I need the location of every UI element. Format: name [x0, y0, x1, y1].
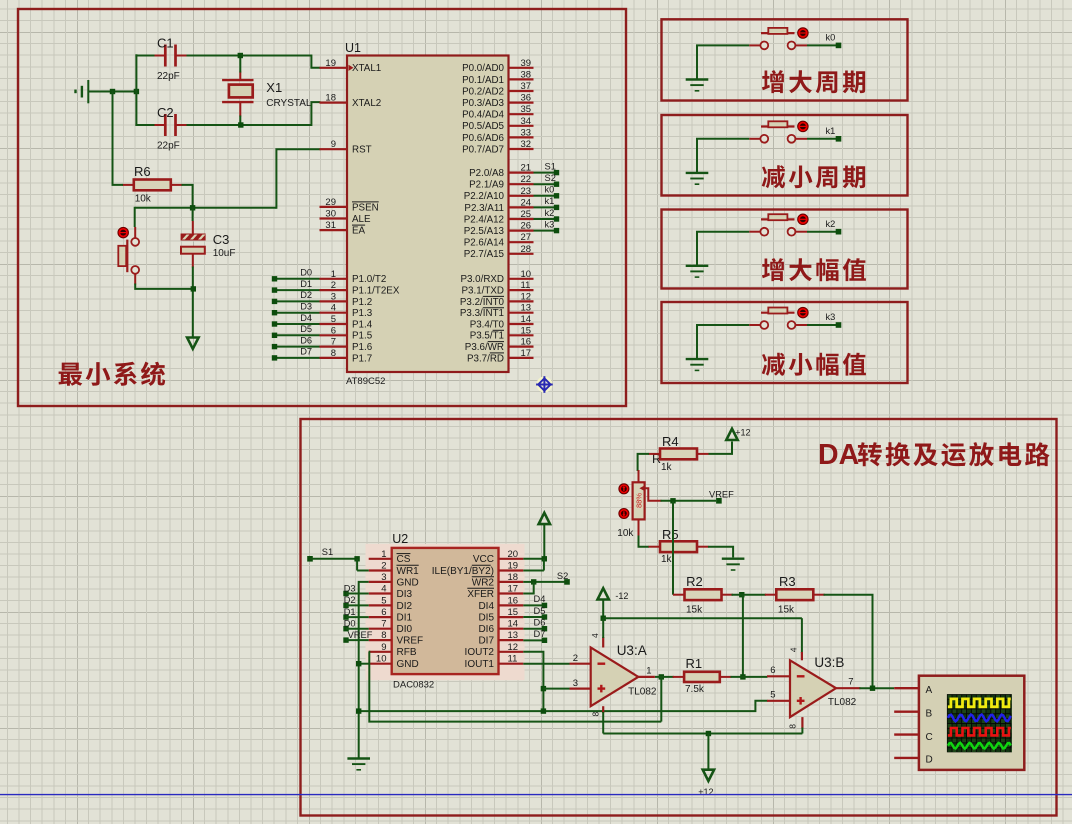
svg-text:U1: U1	[345, 41, 361, 55]
net label D0 (P1.0)	[272, 268, 320, 282]
svg-text:P0.4/AD4: P0.4/AD4	[462, 110, 504, 121]
svg-text:B: B	[926, 708, 933, 719]
net VREF	[661, 490, 735, 504]
svg-text:24: 24	[521, 197, 532, 208]
svg-text:R6: R6	[134, 164, 151, 179]
svg-text:R1: R1	[686, 656, 703, 671]
junction (+12 rail)	[706, 731, 711, 770]
svg-text:6: 6	[381, 607, 386, 618]
svg-text:19: 19	[508, 561, 519, 572]
svg-text:DI0: DI0	[397, 624, 413, 635]
svg-text:P2.0/A8: P2.0/A8	[469, 168, 504, 179]
svg-text:k3: k3	[826, 312, 836, 322]
net label D2 (P1.2)	[272, 290, 320, 304]
svg-text:21: 21	[521, 163, 532, 174]
net terminal k2	[807, 219, 841, 235]
resistor R3 15k	[765, 574, 825, 616]
svg-text:10k: 10k	[135, 194, 152, 205]
op-amp U3:B	[767, 647, 860, 729]
svg-text:17: 17	[508, 584, 519, 595]
wire gnd-R6 (left leg)	[113, 91, 124, 185]
svg-text:29: 29	[325, 197, 336, 208]
svg-text:D0: D0	[300, 268, 312, 278]
net label D0 (DI0)	[343, 619, 368, 632]
svg-text:6: 6	[770, 665, 775, 676]
svg-text:10: 10	[521, 269, 532, 280]
svg-text:D1: D1	[300, 279, 312, 289]
svg-text:R5: R5	[662, 527, 679, 542]
origin marker	[536, 376, 553, 393]
svg-text:P3.3/INT1: P3.3/INT1	[460, 308, 504, 319]
svg-text:10: 10	[376, 654, 387, 665]
net label S2 (P2.1)	[534, 173, 560, 187]
svg-text:DI7: DI7	[478, 636, 494, 647]
svg-text:26: 26	[521, 221, 532, 232]
junction (R2/R3)	[739, 592, 744, 597]
svg-text:11: 11	[521, 280, 531, 291]
svg-text:TL082: TL082	[828, 697, 857, 708]
svg-text:7: 7	[848, 677, 853, 688]
resistor R4 1k	[649, 434, 709, 473]
power +12 (rail)	[698, 770, 714, 797]
svg-text:X1: X1	[266, 80, 282, 95]
net label k0 (P2.2)	[534, 185, 560, 199]
potentiometer RV1 10k	[617, 470, 661, 539]
resistor R5 1k	[649, 527, 709, 565]
svg-text:8: 8	[331, 348, 336, 359]
junction (GND line mid)	[541, 708, 546, 713]
net label D1 (P1.1)	[272, 279, 320, 293]
svg-text:6: 6	[331, 325, 336, 336]
svg-text:P0.1/AD1: P0.1/AD1	[462, 75, 504, 86]
svg-text:S1: S1	[322, 547, 333, 557]
wire C1-crystal-XTAL1	[135, 54, 320, 126]
box frame: k2 button	[662, 210, 908, 289]
svg-text:RST: RST	[352, 145, 372, 156]
svg-text:4: 4	[381, 584, 386, 595]
junction (gnd/C1C2 rail)	[134, 89, 139, 94]
wire +12 rail	[603, 733, 802, 735]
svg-text:2: 2	[331, 280, 336, 291]
svg-text:2: 2	[381, 561, 386, 572]
net label k3 (P2.5)	[534, 219, 560, 233]
svg-text:14: 14	[508, 619, 519, 630]
capacitor C1 22pF	[154, 36, 187, 83]
wire R3-U3B out	[824, 595, 873, 689]
svg-text:C1: C1	[157, 36, 174, 51]
wire R2-R3	[732, 594, 767, 596]
svg-text:3: 3	[331, 291, 336, 302]
svg-text:+12: +12	[698, 787, 713, 797]
wire IOUT1-pin2	[523, 663, 569, 665]
junction (GND pin10)	[356, 661, 361, 666]
net label D7 (P1.7)	[272, 347, 320, 361]
svg-text:D6: D6	[300, 335, 312, 345]
svg-text:CRYSTAL: CRYSTAL	[266, 98, 312, 109]
wire R5-gnd	[708, 547, 733, 558]
svg-text:P3.5/T1: P3.5/T1	[470, 331, 504, 342]
svg-text:11: 11	[508, 654, 518, 665]
svg-text:P1.0/T2: P1.0/T2	[352, 274, 386, 285]
svg-text:C2: C2	[157, 105, 174, 120]
net label k1 (P2.3)	[534, 196, 560, 210]
svg-text:k0: k0	[826, 33, 836, 43]
svg-text:22: 22	[521, 174, 532, 185]
junction (VCC/ILE)	[523, 556, 547, 570]
svg-text:GND: GND	[397, 659, 419, 670]
svg-text:k1: k1	[826, 126, 836, 136]
net terminal S1	[307, 547, 357, 561]
svg-text:DA: DA	[818, 439, 859, 471]
svg-text:12: 12	[521, 291, 532, 302]
crystal X1	[222, 72, 312, 117]
svg-text:D0: D0	[344, 619, 356, 629]
svg-text:k1: k1	[545, 196, 555, 206]
svg-text:P1.7: P1.7	[352, 353, 372, 364]
svg-text:XTAL1: XTAL1	[352, 63, 381, 74]
junction (U3A out)	[655, 674, 674, 721]
svg-text:10k: 10k	[617, 528, 634, 539]
svg-text:DI4: DI4	[478, 601, 494, 612]
svg-text:U3:A: U3:A	[617, 643, 647, 658]
wire button/C3 bottom	[135, 267, 193, 338]
junction (R1/R2R3/pin6)	[731, 674, 768, 679]
svg-text:k0: k0	[545, 185, 555, 195]
net label D3 (DI3)	[343, 583, 368, 596]
svg-text:P1.1/T2EX: P1.1/T2EX	[352, 286, 400, 297]
net label D6 (P1.6)	[272, 335, 320, 349]
svg-text:VREF: VREF	[397, 636, 424, 647]
svg-text:2: 2	[573, 653, 578, 664]
svg-text:P2.3/A11: P2.3/A11	[464, 203, 504, 214]
title: 减小周期	[762, 165, 865, 188]
wire U3B out	[859, 687, 894, 689]
svg-text:39: 39	[521, 58, 532, 69]
net label VREF (U2)	[343, 630, 372, 643]
svg-text:C3: C3	[213, 232, 230, 247]
svg-text:23: 23	[521, 186, 532, 197]
svg-text:D3: D3	[344, 583, 356, 593]
svg-text:13: 13	[521, 303, 532, 314]
resistor R1 7.5k	[673, 656, 732, 695]
svg-text:VREF: VREF	[709, 490, 734, 500]
title: 增大周期	[762, 70, 865, 93]
svg-text:1: 1	[646, 666, 651, 677]
svg-text:P2.7/A15: P2.7/A15	[464, 249, 505, 260]
ground (U2)	[347, 759, 370, 770]
svg-text:1k: 1k	[661, 554, 673, 565]
net label D1 (DI1)	[343, 607, 368, 620]
net terminal S2	[523, 571, 570, 585]
svg-text:VREF: VREF	[348, 630, 373, 640]
svg-text:ILE(BY1/BY2): ILE(BY1/BY2)	[432, 566, 494, 577]
svg-text:P1.5: P1.5	[352, 331, 373, 342]
junction (button/C3 gnd)	[191, 286, 196, 291]
svg-text:D7: D7	[534, 629, 546, 639]
svg-text:TL082: TL082	[628, 687, 657, 698]
net label S1 (P2.0)	[534, 161, 560, 175]
svg-text:P2.1/A9: P2.1/A9	[469, 180, 504, 191]
svg-text:D1: D1	[344, 607, 356, 617]
svg-text:DAC0832: DAC0832	[393, 680, 434, 691]
junction (C1/X1 top)	[238, 53, 243, 58]
svg-text:18: 18	[325, 93, 336, 104]
title: 增大幅值	[762, 258, 866, 281]
wire R4-pot	[638, 454, 649, 471]
net terminal k0	[807, 33, 841, 49]
svg-text:k2: k2	[826, 219, 836, 229]
svg-text:9: 9	[331, 139, 336, 150]
junction (R6/C3/RST)	[190, 205, 195, 210]
svg-text:15k: 15k	[686, 605, 703, 616]
svg-text:C: C	[926, 732, 933, 743]
svg-text:S2: S2	[557, 571, 568, 581]
wire to C3 top	[192, 207, 194, 221]
svg-text:20: 20	[508, 549, 519, 560]
svg-text:16: 16	[521, 337, 532, 348]
wire C2-crystal-XTAL2	[135, 102, 320, 126]
wire U3A pin8 +12	[602, 712, 604, 734]
oscilloscope	[894, 676, 1024, 770]
svg-text:1: 1	[331, 269, 336, 280]
svg-text:P0.6/AD6: P0.6/AD6	[462, 133, 504, 144]
svg-text:DI1: DI1	[397, 613, 413, 624]
wire R6-RST net	[135, 149, 321, 227]
svg-text:17: 17	[521, 348, 532, 359]
svg-text:34: 34	[521, 116, 532, 127]
svg-text:10uF: 10uF	[213, 248, 236, 259]
svg-text:D: D	[926, 754, 933, 765]
junction (IOUT2/pin3)	[541, 686, 570, 691]
IC U1 AT89C52	[320, 41, 534, 387]
capacitor C3 10uF	[181, 221, 236, 268]
svg-text:36: 36	[521, 93, 532, 104]
svg-text:31: 31	[325, 220, 336, 231]
push-button k2	[749, 214, 808, 236]
svg-text:R4: R4	[662, 434, 679, 449]
net label D5 (DI5)	[523, 606, 547, 620]
svg-text:22pF: 22pF	[157, 71, 180, 82]
ground (box k2)	[686, 232, 750, 277]
wire GND line (to pin5)	[359, 701, 768, 711]
wire VREF-R2	[672, 501, 674, 595]
svg-text:P2.4/A12: P2.4/A12	[464, 214, 504, 225]
title: 减小幅值	[762, 353, 866, 376]
svg-text:4: 4	[590, 633, 600, 638]
net label D2 (DI2)	[343, 595, 368, 608]
svg-text:CS: CS	[397, 554, 411, 565]
svg-text:k3: k3	[545, 219, 555, 229]
svg-text:38: 38	[521, 69, 532, 80]
svg-text:D3: D3	[300, 302, 312, 312]
junction (out/R3/scope)	[870, 686, 875, 691]
svg-text:+12: +12	[735, 428, 750, 438]
svg-text:P3.2/INT0: P3.2/INT0	[460, 297, 505, 308]
svg-text:P3.1/TXD: P3.1/TXD	[462, 286, 504, 297]
svg-text:D4: D4	[534, 594, 546, 604]
svg-text:EA: EA	[352, 226, 366, 237]
svg-text:22pF: 22pF	[157, 141, 180, 152]
svg-text:P0.7/AD7: P0.7/AD7	[462, 144, 504, 155]
svg-text:P2.6/A14: P2.6/A14	[464, 238, 505, 249]
svg-text:P2.5/A13: P2.5/A13	[464, 226, 505, 237]
svg-text:5: 5	[770, 689, 775, 700]
svg-text:D6: D6	[534, 617, 546, 627]
svg-text:DI6: DI6	[478, 624, 494, 635]
svg-text:P3.0/RXD: P3.0/RXD	[460, 274, 504, 285]
wire pot-R5	[639, 536, 650, 547]
box frame: k0 button	[662, 19, 908, 100]
svg-text:P3.6/WR: P3.6/WR	[465, 342, 504, 353]
hidden label RV1	[652, 452, 661, 466]
svg-text:5: 5	[331, 314, 336, 325]
junction (gnd/R6 branch)	[110, 89, 115, 94]
svg-text:15: 15	[521, 325, 532, 336]
svg-text:1: 1	[381, 549, 386, 560]
wire U2 GND rail	[359, 582, 369, 758]
svg-text:DI2: DI2	[397, 601, 413, 612]
ground (left of C1/C2)	[76, 80, 137, 103]
svg-text:R3: R3	[779, 574, 796, 589]
junction (GND line left)	[356, 708, 361, 713]
box frame: k1 button	[662, 115, 908, 196]
svg-text:37: 37	[521, 81, 532, 92]
svg-text:RFB: RFB	[397, 647, 417, 658]
op-amp U3:A	[570, 633, 657, 717]
svg-text:P1.6: P1.6	[352, 342, 373, 353]
net label D5 (P1.5)	[272, 324, 320, 338]
svg-text:GND: GND	[397, 577, 419, 588]
ground (box k0)	[686, 45, 750, 90]
svg-text:30: 30	[325, 209, 336, 220]
title: 最小系统	[59, 362, 166, 386]
svg-text:P0.0/AD0: P0.0/AD0	[462, 63, 504, 74]
power +12 (R4)	[708, 428, 750, 454]
ground arrow (down)	[187, 338, 199, 349]
svg-text:U2: U2	[392, 532, 408, 546]
net terminal k3	[807, 312, 841, 328]
push-button k1	[749, 121, 808, 143]
svg-text:WR2: WR2	[472, 577, 495, 588]
svg-text:DI5: DI5	[478, 613, 494, 624]
junction (VREF/R2)	[670, 498, 675, 503]
svg-text:15: 15	[508, 607, 519, 618]
net label D7 (DI7)	[523, 629, 547, 643]
svg-text:25: 25	[521, 209, 532, 220]
svg-text:U3:B: U3:B	[814, 655, 844, 670]
title: DA转换及运放电路	[818, 439, 1050, 471]
box frame: k3 button	[662, 302, 908, 383]
svg-text:IOUT1: IOUT1	[465, 659, 495, 670]
svg-text:8: 8	[381, 630, 386, 641]
net label D6 (DI6)	[523, 617, 547, 631]
svg-text:32: 32	[521, 139, 532, 150]
junction (C2/X1 bottom)	[238, 122, 243, 127]
svg-text:35: 35	[521, 104, 532, 115]
svg-text:1k: 1k	[661, 462, 673, 473]
svg-text:P0.5/AD5: P0.5/AD5	[462, 121, 504, 132]
svg-text:8: 8	[788, 724, 798, 729]
svg-text:7: 7	[381, 619, 386, 630]
svg-text:-12: -12	[615, 591, 628, 601]
IC U2 DAC0832	[366, 532, 525, 690]
capacitor C2 22pF	[154, 105, 187, 152]
svg-text:AT89C52: AT89C52	[346, 376, 385, 387]
junction (WR2/XFER)	[523, 579, 536, 593]
svg-text:88%: 88%	[635, 493, 644, 508]
wire -12 rail	[603, 618, 802, 653]
svg-text:D5: D5	[534, 606, 546, 616]
svg-text:WR1: WR1	[397, 566, 420, 577]
ground (R5)	[722, 559, 745, 570]
svg-text:27: 27	[521, 232, 532, 243]
svg-text:P3.4/T0: P3.4/T0	[470, 319, 505, 330]
svg-text:S2: S2	[545, 173, 556, 183]
resistor R2 15k	[673, 574, 733, 616]
net terminal k1	[807, 126, 841, 142]
svg-text:XTAL2: XTAL2	[352, 98, 381, 109]
power +5 (U2 VCC)	[523, 513, 550, 559]
push-button k0	[749, 28, 808, 50]
svg-text:P0.2/AD2: P0.2/AD2	[462, 86, 504, 97]
svg-text:PSEN: PSEN	[352, 202, 379, 213]
svg-text:33: 33	[521, 127, 532, 138]
svg-text:5: 5	[381, 595, 386, 606]
svg-text:12: 12	[508, 642, 519, 653]
svg-text:14: 14	[521, 314, 532, 325]
svg-text:S1: S1	[545, 161, 556, 171]
wire R2R3-pin6	[742, 595, 744, 677]
svg-text:k2: k2	[545, 208, 555, 218]
box frame: DA conversion	[301, 419, 1057, 816]
svg-text:16: 16	[508, 595, 519, 606]
svg-text:19: 19	[325, 58, 336, 69]
svg-text:D2: D2	[300, 290, 312, 300]
svg-text:P0.3/AD3: P0.3/AD3	[462, 98, 504, 109]
svg-text:28: 28	[521, 244, 532, 255]
svg-text:VCC: VCC	[473, 554, 494, 565]
junction (S1/CS/WR1)	[354, 556, 368, 570]
resistor R6 10k	[122, 164, 182, 205]
wire IOUT2-gnd	[523, 652, 543, 711]
net label D3 (P1.3)	[272, 302, 320, 316]
ground (box k3)	[686, 325, 750, 370]
svg-text:3: 3	[381, 572, 386, 583]
svg-text:18: 18	[508, 572, 519, 583]
svg-text:4: 4	[789, 647, 799, 652]
svg-text:13: 13	[508, 630, 519, 641]
svg-text:XFER: XFER	[467, 589, 494, 600]
svg-text:P3.7/RD: P3.7/RD	[467, 353, 504, 364]
wire RFB feedback	[369, 652, 662, 722]
net label k2 (P2.4)	[534, 208, 560, 222]
sheet border line	[0, 794, 1072, 796]
power -12 (U3:A)	[598, 588, 629, 618]
svg-text:15k: 15k	[778, 605, 795, 616]
svg-text:P1.3: P1.3	[352, 308, 373, 319]
svg-text:7: 7	[331, 337, 336, 348]
svg-text:D5: D5	[300, 324, 312, 334]
svg-text:P1.2: P1.2	[352, 297, 372, 308]
svg-text:7.5k: 7.5k	[685, 684, 705, 695]
svg-text:DI3: DI3	[397, 589, 413, 600]
svg-text:IOUT2: IOUT2	[465, 647, 495, 658]
svg-text:4: 4	[331, 303, 336, 314]
net label D4 (P1.4)	[272, 313, 320, 327]
svg-text:3: 3	[573, 678, 578, 689]
svg-text:8: 8	[591, 712, 601, 717]
net label D4 (DI4)	[523, 594, 547, 608]
